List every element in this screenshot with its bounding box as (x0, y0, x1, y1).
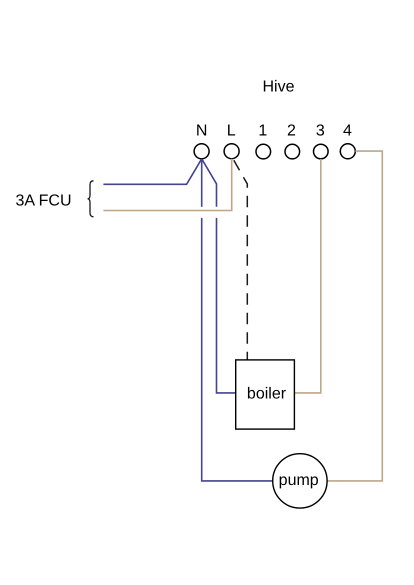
terminal 2 (285, 144, 300, 159)
boiler box (236, 360, 295, 429)
wire tan FCU to L (103, 159, 231, 211)
svg-text:4: 4 (343, 122, 352, 139)
wire tan terminal 3 to boiler (294, 159, 320, 393)
wire blue N down to pump (upper segment) (201, 159, 203, 207)
wire blue N to boiler (upper segment) (202, 159, 217, 207)
wire blue N to boiler (lower segment) (217, 218, 236, 393)
terminal L (224, 144, 239, 159)
terminal 3 (314, 144, 329, 159)
terminal 1 (256, 144, 271, 159)
svg-text:pump: pump (279, 472, 319, 489)
terminal N (194, 144, 209, 159)
wire blue N down to pump (lower segment) (202, 218, 273, 481)
pump circle (273, 454, 327, 508)
svg-text:N: N (196, 122, 208, 139)
svg-text:1: 1 (258, 122, 267, 139)
wire blue N feed from FCU (103, 159, 201, 185)
svg-text:L: L (227, 122, 236, 139)
wire dashed L to boiler (234, 160, 248, 361)
svg-text:2: 2 (287, 122, 296, 139)
svg-text:3A FCU: 3A FCU (16, 193, 72, 210)
brace FCU (88, 181, 94, 217)
svg-text:Hive: Hive (262, 79, 294, 96)
svg-text:3: 3 (316, 122, 325, 139)
terminal 4 (340, 144, 355, 159)
wire tan terminal 4 to pump (327, 151, 382, 481)
svg-text:boiler: boiler (247, 385, 287, 402)
